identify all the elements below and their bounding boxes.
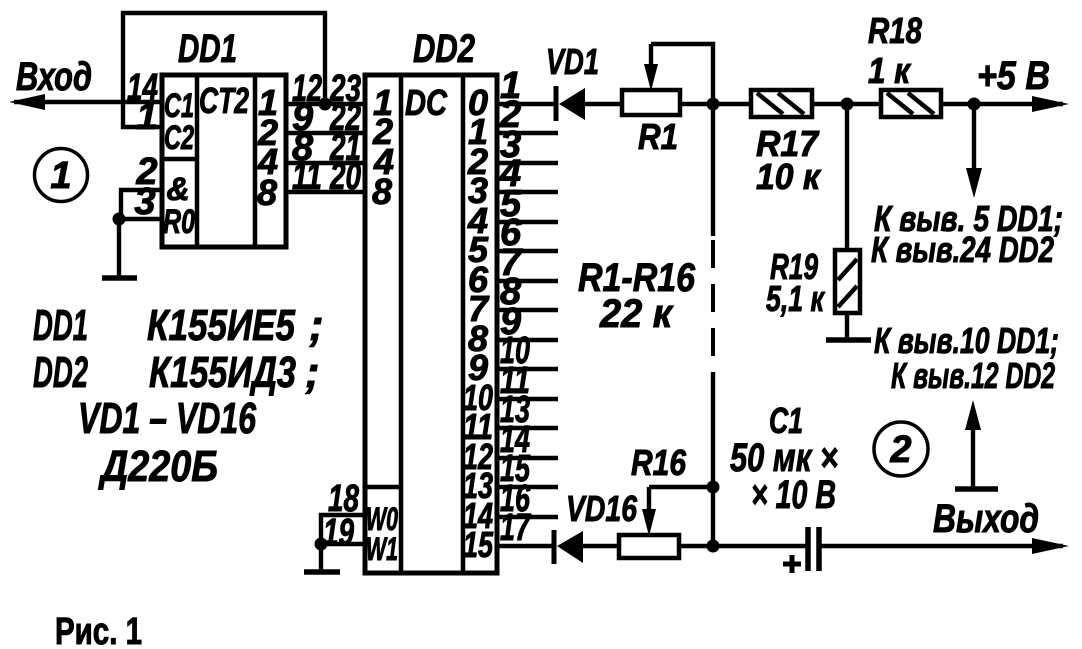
wire: DD2 output 9 (pin 10) stub [497,367,558,371]
IC DD1 body (CT2 counter) [162,75,286,247]
wire: R1 to R17 [680,102,751,106]
resistor R18 [881,90,941,117]
wire: tap to R19 [845,104,849,250]
junction: wiper/bus [707,481,720,494]
wire: R16 wiper to bus [649,485,713,489]
resistor R17 [751,90,812,117]
svg-text:VD1 – VD16: VD1 – VD16 [78,394,256,443]
node 2 (circled) [874,422,928,476]
junction: pins 2/3 [113,213,126,226]
wire: feedback loop DD1 pin12 to pin1 (C2) [123,13,325,127]
wire: DD1 pin 12 to DD2 pin 23 [286,102,365,106]
svg-text:R16: R16 [631,442,687,483]
wire: R1 wiper to bus [651,44,713,104]
svg-text:10 к: 10 к [756,156,822,197]
junction: bus/output line [707,540,720,553]
svg-text:Выход: Выход [933,497,1039,541]
svg-text:&: & [166,171,189,207]
svg-text:W1: W1 [366,531,398,567]
wire: DD1 pin 3 (R0) [117,217,162,221]
wire: DD1 pin 8 to DD2 pin 21 [286,161,365,165]
svg-text:VD1: VD1 [546,41,599,82]
arrow: link up (к выв.12) [955,486,998,492]
wire: DD2 output 4 (pin 5) stub [497,220,558,224]
svg-text:11: 11 [292,156,322,198]
wire: DD2 pin 1 output to VD1 [497,102,554,106]
svg-text:DD1: DD1 [178,27,237,71]
svg-text:К155ИД3: К155ИД3 [149,348,296,397]
wire: DD2 output 2 (pin 3) stub [497,161,558,165]
svg-text:5,1 к: 5,1 к [766,278,825,319]
svg-text:8: 8 [372,171,392,212]
svg-text:R1: R1 [638,116,678,157]
capacitor C1 [805,527,811,571]
svg-text:DD1: DD1 [33,301,88,350]
svg-text:К155ИЕ5: К155ИЕ5 [147,301,295,350]
polarity + (C1) [783,562,801,567]
wire: R16 to C1 [679,544,806,548]
diode VD1 [554,86,559,121]
svg-text:× 10 В: × 10 В [751,473,836,517]
svg-text:;: ; [309,301,324,350]
ground (DD1 R0) [117,219,121,277]
wire: DD2 output 5 (pin 6) stub [497,249,558,253]
wire: resistor bus dashed (R2-R15 implied) [711,240,715,360]
svg-text:20: 20 [329,156,361,198]
junction: loop on pin12 line [319,98,332,111]
wire: DD2 output 7 (pin 8) stub [497,308,558,312]
svg-text:Д220Б: Д220Б [98,442,218,491]
svg-text:19: 19 [323,512,354,554]
wire: DD2 output 11 (pin 13) stub [497,426,558,430]
svg-text:VD16: VD16 [566,488,638,529]
wire: resistor bus solid (top) [711,104,715,236]
svg-text:8: 8 [257,172,277,213]
svg-text:;: ; [305,348,320,397]
arrow: +5В down to power pins [972,104,976,172]
wire: DD2 output 8 (pin 9) stub [497,338,558,342]
wire: DD2 output 13 (pin 15) stub [497,485,558,489]
wire: DD2 pin 17 output to VD16 [497,544,552,548]
junction: pins 18/19 [315,538,328,551]
R16 wiper arrow [647,487,651,515]
IC DD2 body (DC decoder) [365,75,497,573]
svg-text:CT2: CT2 [199,80,249,121]
junction: bus top [707,98,720,111]
R1 wiper arrow [649,44,653,70]
wire: DD1 pin 11 to DD2 pin 20 [286,190,365,194]
wire: C1 to Выход [821,544,1063,548]
wire: R19 to rail bar [845,313,849,339]
arrowhead: Вход (points left) [9,94,45,110]
resistor R16 (variable) [619,535,679,558]
wire: resistor bus solid (bottom) [711,372,715,546]
svg-text:Вход: Вход [16,55,92,99]
arrowhead: Выход (points right) [1032,538,1069,554]
wire: R17 to R18 [812,102,881,106]
wire: DD1 pin 9 to DD2 pin 22 [286,131,365,135]
wire: DD2 output 1 (pin 2) stub [497,131,558,135]
svg-text:1: 1 [136,96,157,138]
rail bar (to выв.10) [826,337,871,343]
svg-text:2: 2 [889,429,911,471]
wire: DD2 pin 18 (W0) [321,515,365,544]
wire: DD2 output 6 (pin 7) stub [497,279,558,283]
svg-text:DC: DC [405,82,448,123]
svg-text:Рис. 1: Рис. 1 [55,611,142,649]
junction: +5В power branch [968,98,981,111]
svg-text:DD2: DD2 [413,27,475,71]
wire: DD2 pin 19 (W1) [321,542,365,546]
svg-text:К выв.12 DD2: К выв.12 DD2 [891,355,1055,396]
resistor R1 (variable) [622,90,680,115]
svg-text:R18: R18 [868,10,922,51]
svg-text:1: 1 [50,155,71,197]
junction: R19 tap [841,98,854,111]
svg-text:R0: R0 [163,203,195,241]
svg-text:К выв.24 DD2: К выв.24 DD2 [871,229,1054,270]
wire: VD16 to R16 [583,544,619,548]
svg-text:1 к: 1 к [868,50,912,91]
ground (DD2 W inputs) [319,544,323,571]
wire: DD2 output 14 (pin 16) stub [497,515,558,519]
svg-text:15: 15 [463,524,494,565]
wire: DD2 output 12 (pin 14) stub [497,456,558,460]
node 1 (circled) [35,149,88,202]
svg-text:3: 3 [134,181,155,223]
resistor R19 [835,250,860,313]
wire: DD1 pin 2 (R0) [121,190,162,219]
wire: VD1 to R1 [585,102,622,106]
diode VD16 [552,530,557,564]
svg-text:22 к: 22 к [599,292,674,336]
svg-text:+5 В: +5 В [977,54,1050,98]
svg-text:C1: C1 [769,400,803,441]
svg-text:DD2: DD2 [33,348,88,397]
svg-text:17: 17 [500,507,531,549]
wire: R18 to +5В [941,102,1063,106]
svg-text:C2: C2 [164,119,194,157]
wire: DD2 output 3 (pin 4) stub [497,190,558,194]
arrowhead: +5В rail (points right) [1032,96,1069,112]
wire: Вход input line [14,100,162,104]
wire: DD2 output 10 (pin 11) stub [497,397,558,401]
